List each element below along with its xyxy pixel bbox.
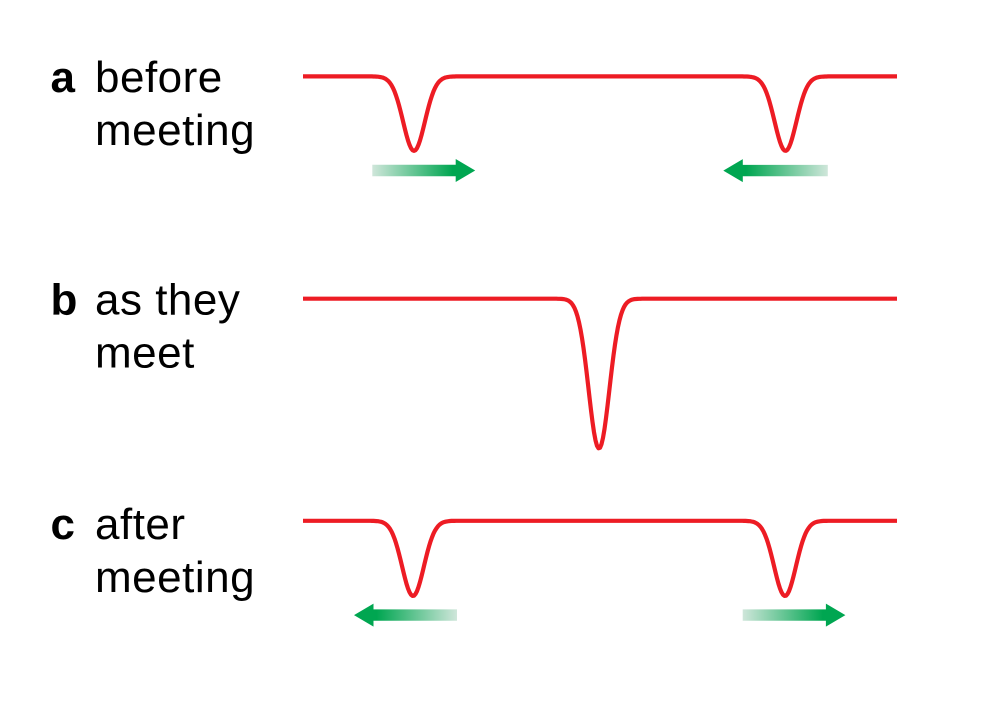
wave a: string with two pulses approaching <box>303 76 897 150</box>
arrow a-left: left pulse moving right <box>372 159 475 182</box>
svg-text:before: before <box>95 53 223 102</box>
svg-text:after: after <box>95 500 186 549</box>
arrow a-right: right pulse moving left <box>723 159 828 182</box>
arrow c-left: left pulse moving left <box>354 604 457 627</box>
svg-text:meeting: meeting <box>95 106 255 155</box>
svg-text:a: a <box>51 53 76 102</box>
svg-text:as they: as they <box>95 276 240 325</box>
svg-text:c: c <box>51 500 76 549</box>
svg-text:b: b <box>51 276 78 325</box>
svg-text:meeting: meeting <box>95 553 255 602</box>
arrow c-right: right pulse moving right <box>743 604 846 627</box>
svg-text:meet: meet <box>95 329 195 378</box>
wave c: string with two pulses separating <box>303 521 897 596</box>
wave b: superposed double-depth pulse <box>303 299 897 449</box>
